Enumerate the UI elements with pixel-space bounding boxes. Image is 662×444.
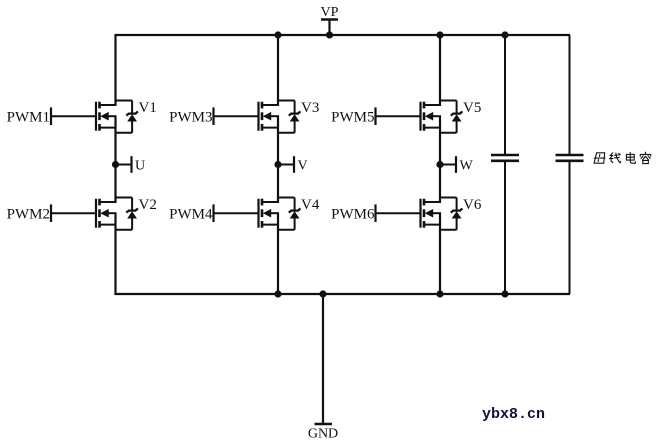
transistor V4 bbox=[259, 199, 280, 228]
body diode of V1 bbox=[116, 101, 138, 133]
wire top bus to drain of upper MOSFET (U leg) bbox=[114, 34, 116, 106]
wire node V to terminal bbox=[278, 164, 294, 166]
wire lower MOSFET source to bottom bus (U leg) bbox=[114, 213, 116, 295]
transistor V2 bbox=[96, 199, 117, 228]
junction bottom bus / C1 bbox=[501, 290, 508, 297]
body diode of V3 bbox=[278, 101, 300, 133]
svg-text:V5: V5 bbox=[463, 100, 481, 116]
transistor V3 bbox=[259, 102, 280, 131]
label bus-capacitor (Chinese) bbox=[594, 152, 651, 163]
svg-text:PWM5: PWM5 bbox=[331, 110, 374, 126]
svg-text:PWM1: PWM1 bbox=[7, 110, 50, 126]
wire top bus to drain of upper MOSFET (W leg) bbox=[439, 34, 441, 106]
node W (phase output junction) bbox=[436, 161, 443, 168]
wire upper MOSFET source to node U to lower MOSFET drain bbox=[114, 116, 116, 202]
wire VP top bus bbox=[115, 34, 571, 36]
terminal V bbox=[294, 156, 308, 173]
body diode of V2 bbox=[116, 198, 138, 230]
wire PWM2 to gate of V2 bbox=[51, 212, 96, 214]
junction top bus / W leg bbox=[436, 31, 443, 38]
wire PWM4 to gate of V4 bbox=[214, 212, 259, 214]
ground GND terminal bbox=[308, 424, 338, 442]
junction bottom bus / V leg bbox=[274, 290, 281, 297]
wire top bus to drain of upper MOSFET (V leg) bbox=[277, 34, 279, 106]
wire PWM5 to gate of V5 bbox=[376, 115, 421, 117]
svg-text:V1: V1 bbox=[139, 100, 157, 116]
junction dot VP on top bus bbox=[326, 31, 333, 38]
transistor V1 bbox=[96, 102, 117, 131]
wire PWM1 to gate of V1 bbox=[51, 115, 96, 117]
terminal VP bbox=[321, 5, 339, 35]
wire lower MOSFET source to bottom bus (V leg) bbox=[277, 213, 279, 295]
svg-text:V2: V2 bbox=[139, 197, 157, 213]
wire bottom bus to GND terminal bbox=[322, 294, 324, 424]
node U (phase output junction) bbox=[112, 161, 119, 168]
junction top bus / V leg bbox=[274, 31, 281, 38]
wire PWM6 to gate of V6 bbox=[376, 212, 421, 214]
wire GND bottom bus bbox=[115, 293, 571, 295]
capacitor C2 (bus capacitor) bbox=[556, 35, 584, 294]
svg-text:VP: VP bbox=[321, 5, 339, 20]
svg-text:PWM3: PWM3 bbox=[169, 110, 212, 126]
terminal PWM3 bbox=[169, 107, 213, 125]
node V (phase output junction) bbox=[274, 161, 281, 168]
wire upper MOSFET source to node W to lower MOSFET drain bbox=[439, 116, 441, 202]
svg-text:W: W bbox=[460, 159, 474, 174]
junction bottom bus / GND stem bbox=[319, 290, 326, 297]
terminal PWM5 bbox=[331, 107, 375, 125]
svg-text:ybx8.cn: ybx8.cn bbox=[482, 406, 545, 423]
wire upper MOSFET source to node V to lower MOSFET drain bbox=[277, 116, 279, 202]
terminal PWM1 bbox=[7, 107, 51, 125]
svg-text:V4: V4 bbox=[301, 197, 320, 213]
capacitor C1 (bus capacitor) bbox=[491, 35, 519, 294]
wire node U to terminal bbox=[116, 164, 132, 166]
body diode of V5 bbox=[440, 101, 462, 133]
terminal W bbox=[456, 156, 474, 173]
terminal U bbox=[132, 156, 146, 173]
transistor V6 bbox=[421, 199, 442, 228]
wire node W to terminal bbox=[440, 164, 456, 166]
terminal PWM6 bbox=[331, 204, 375, 222]
junction bottom bus / W leg bbox=[436, 290, 443, 297]
body diode of V6 bbox=[440, 198, 462, 230]
svg-text:GND: GND bbox=[308, 427, 338, 442]
svg-text:V3: V3 bbox=[301, 100, 319, 116]
wire PWM3 to gate of V3 bbox=[214, 115, 259, 117]
svg-text:V: V bbox=[298, 159, 308, 174]
svg-text:PWM6: PWM6 bbox=[331, 207, 375, 223]
transistor V5 bbox=[421, 102, 442, 131]
svg-text:PWM2: PWM2 bbox=[7, 207, 50, 223]
svg-text:V6: V6 bbox=[463, 197, 482, 213]
svg-text:U: U bbox=[135, 159, 145, 174]
terminal PWM4 bbox=[169, 204, 213, 222]
terminal PWM2 bbox=[7, 204, 51, 222]
svg-text:PWM4: PWM4 bbox=[169, 207, 213, 223]
junction top bus / C1 bbox=[501, 31, 508, 38]
wire lower MOSFET source to bottom bus (W leg) bbox=[439, 213, 441, 295]
body diode of V4 bbox=[278, 198, 300, 230]
